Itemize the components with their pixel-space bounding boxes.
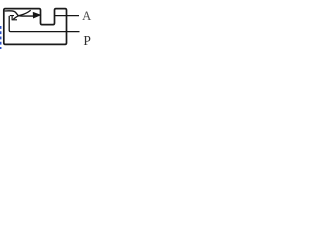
device outline (stepped closed loop) — [4, 9, 67, 45]
svg-text:P: P — [83, 33, 91, 48]
short horizontal near P-wire top — [10, 15, 14, 17]
wire P vertical + horizontal (to label P) — [9, 16, 79, 32]
arrow S2 diagonal shaft — [13, 10, 30, 19]
arrow S1 wavy shaft — [5, 11, 34, 16]
arrowhead of S1 — [33, 12, 41, 18]
wire A (to label A) — [55, 15, 80, 17]
S2 open arrowhead horizontal tick — [12, 19, 17, 21]
S2 open arrowhead vertical tick — [11, 15, 13, 20]
svg-text:A: A — [82, 9, 91, 23]
blue dashed margin line — [0, 26, 2, 49]
